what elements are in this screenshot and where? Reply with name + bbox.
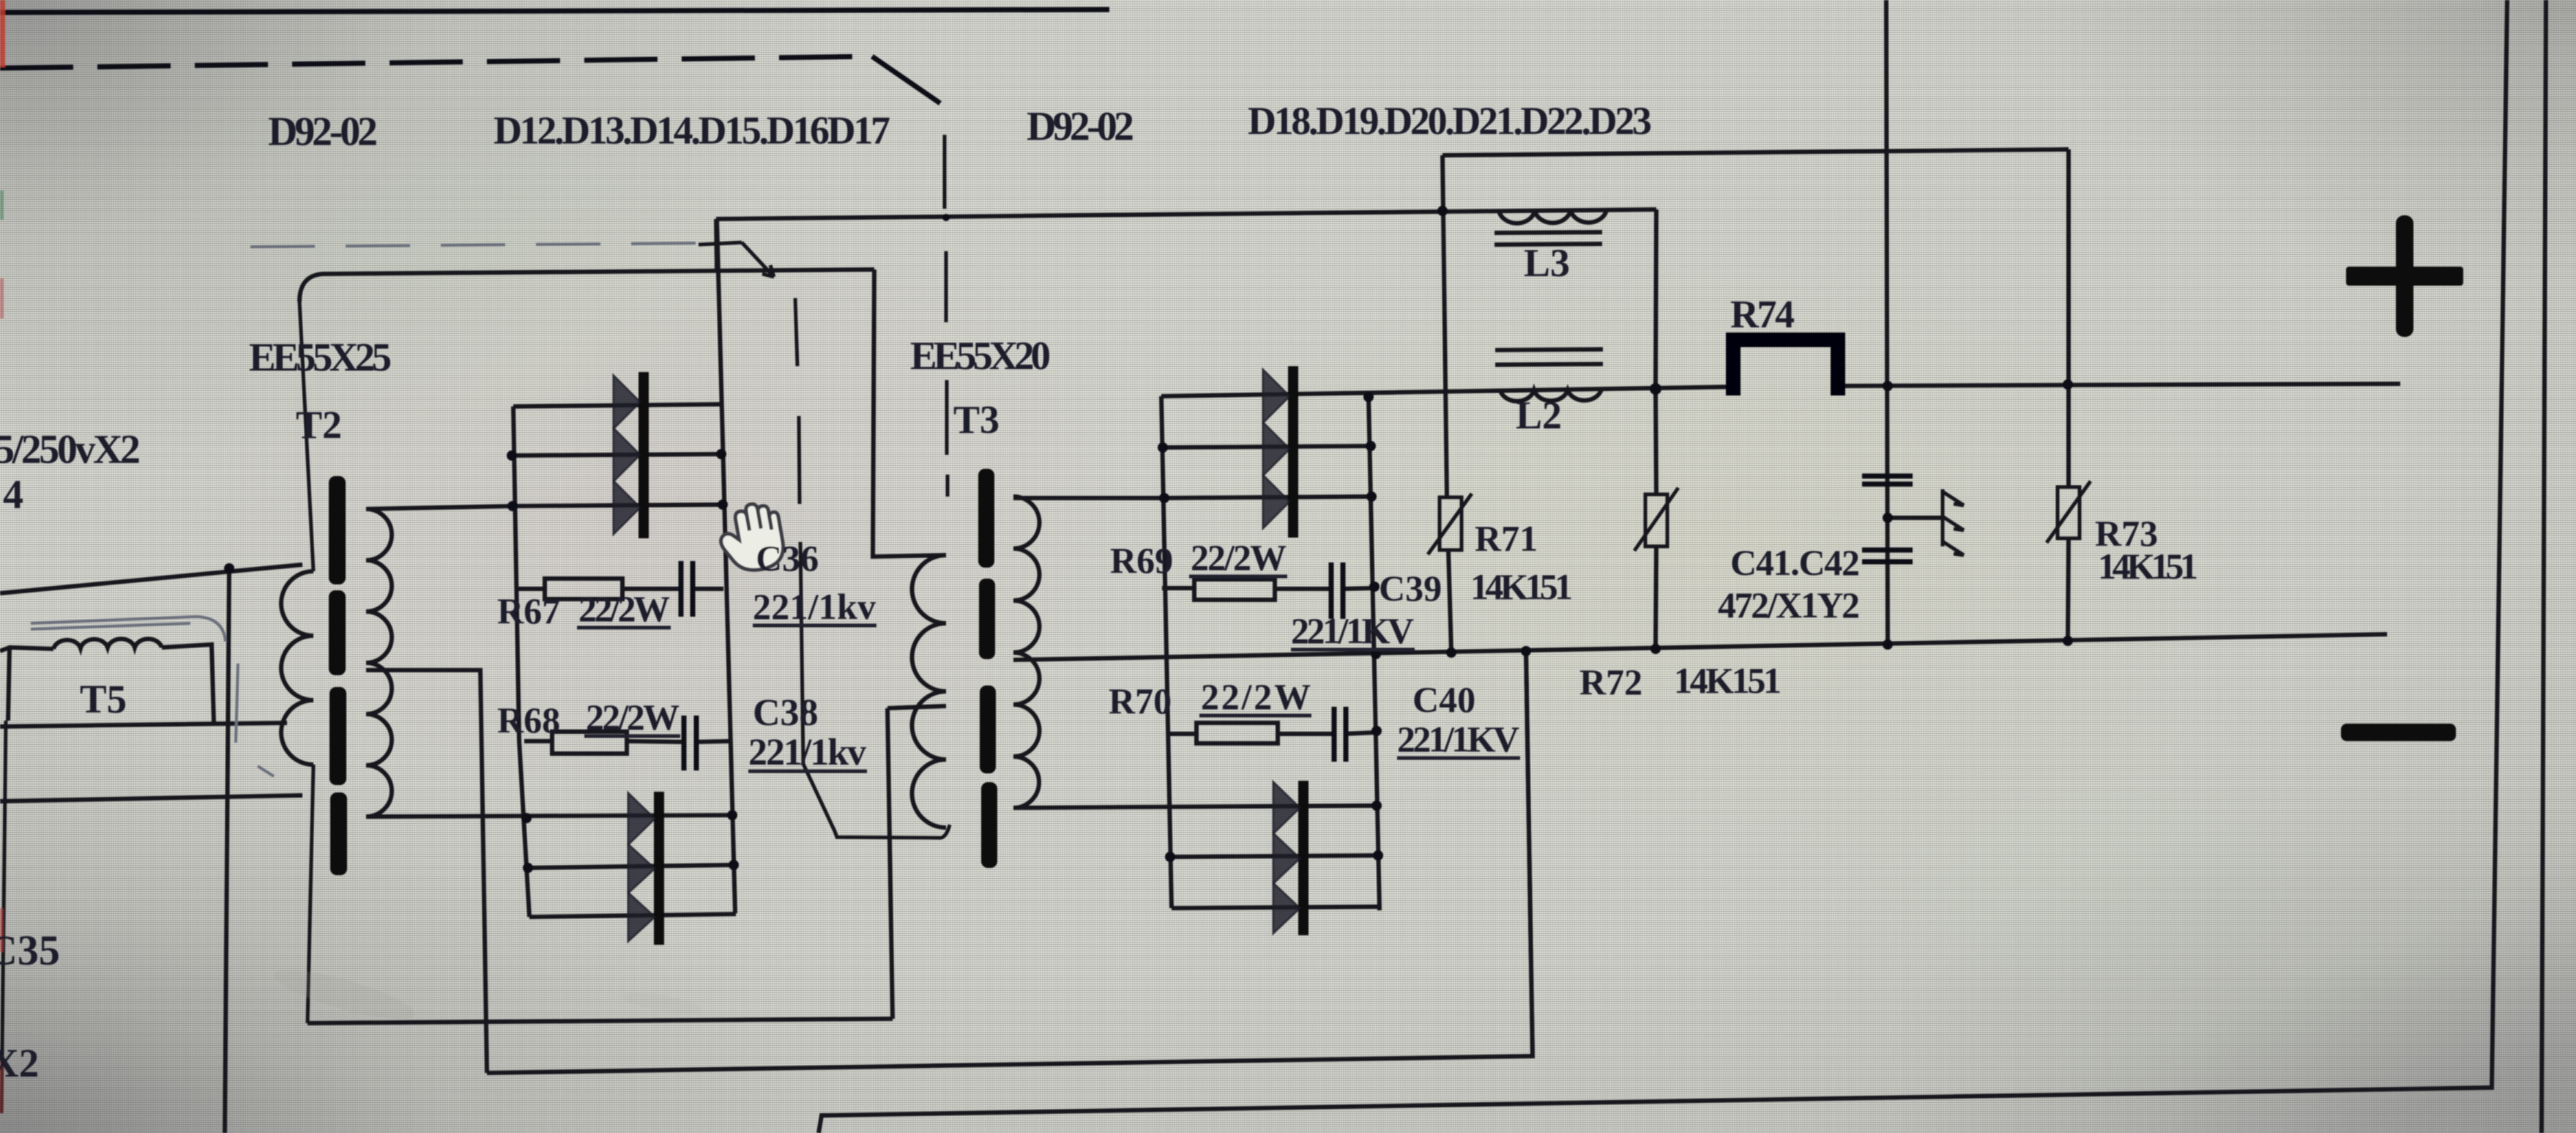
- label underline: [1189, 575, 1287, 579]
- junction (1872,609): [1366, 441, 1376, 451]
- junction (2261,531): [1650, 383, 1661, 395]
- left edge vertical: [1, 721, 6, 1113]
- T2 primary lead vertical: [299, 302, 313, 1023]
- svg-text:22/2W: 22/2W: [586, 696, 680, 738]
- T2 secondary bottom tap: [366, 815, 732, 817]
- svg-text:R74: R74: [1730, 292, 1795, 336]
- C41 capacitor: [1862, 476, 1913, 484]
- svg-text:C39: C39: [1379, 568, 1442, 609]
- L3 core bars: [1494, 232, 1602, 245]
- T2 primary winding: [281, 571, 313, 765]
- right outer border: [2542, 0, 2546, 1133]
- junction (1292,297): [942, 214, 950, 221]
- svg-text:EE55X25: EE55X25: [249, 335, 392, 379]
- svg-text:T3: T3: [953, 398, 999, 442]
- D18 D19 D20 triangles: [1263, 370, 1289, 423]
- top line y211: [1443, 149, 2069, 155]
- svg-text:4: 4: [3, 472, 23, 518]
- label underline: [1291, 648, 1415, 652]
- long vertical from W1: [225, 568, 229, 1133]
- svg-text:R67: R67: [497, 590, 560, 631]
- svg-text:R70: R70: [1109, 680, 1172, 721]
- bottom rail to T3 box: [308, 1019, 893, 1023]
- svg-text:221/1KV: 221/1KV: [1291, 610, 1414, 651]
- svg-text:D92-02: D92-02: [268, 109, 378, 155]
- T3 center tap rail (return): [1013, 634, 2387, 660]
- junction (2578,527): [1883, 381, 1893, 391]
- L2 coil: [1500, 390, 1601, 401]
- junction (1873,678): [1366, 491, 1377, 502]
- left wire W3: [0, 795, 302, 801]
- svg-text:L3: L3: [1524, 241, 1570, 285]
- L2 rail: [1161, 384, 2400, 396]
- svg-text:22/2W: 22/2W: [1201, 676, 1311, 717]
- top rail y299 with L3: [716, 209, 1656, 219]
- D15 D16 D17 triangles: [628, 793, 655, 844]
- R68 snubber wire: [524, 741, 730, 742]
- svg-text:14K151: 14K151: [2098, 546, 2198, 587]
- R73 varistor: [2058, 487, 2080, 538]
- svg-text:L2: L2: [1516, 393, 1562, 437]
- C36 capacitor: [681, 561, 693, 617]
- T3 secondary winding: [1013, 497, 1040, 808]
- chassis ground symbol: [1941, 489, 1945, 546]
- gray dashed diagonal arrow: [699, 242, 774, 277]
- minus output terminal: [2341, 724, 2456, 741]
- T3 secondary top tap: [1013, 496, 1161, 500]
- svg-text:C36: C36: [756, 538, 819, 579]
- T3 core: [978, 469, 994, 568]
- junction (1882,1168): [1373, 850, 1383, 861]
- T2 transformer core: [329, 476, 346, 584]
- label underline: [1397, 757, 1520, 760]
- lower return rail: [487, 649, 1533, 1073]
- top border line: [0, 10, 1109, 12]
- T2 upper diode block left bus: [513, 406, 529, 917]
- T3 left edge vertical: [887, 706, 946, 1019]
- C38 capacitor: [684, 716, 696, 770]
- T3 lower diode wires: [1170, 855, 1378, 857]
- junction (1598,1170): [1165, 852, 1175, 862]
- svg-text:C38: C38: [753, 692, 819, 734]
- svg-text:D92-02: D92-02: [1027, 104, 1134, 149]
- T3 lower cathode bar: [1298, 781, 1309, 935]
- svg-text:221/1kv: 221/1kv: [748, 732, 866, 773]
- svg-text:T5: T5: [80, 677, 127, 721]
- svg-text:R69: R69: [1110, 540, 1173, 581]
- R74 jumper: [1733, 340, 1838, 395]
- junction (2824,525): [2063, 379, 2073, 390]
- T5 shield gray: [31, 617, 226, 642]
- L2 core bars: [1495, 349, 1603, 365]
- left wire W2: [0, 723, 287, 727]
- vertical from 211 line: [1443, 155, 1451, 652]
- svg-text:D12.D13.D14.D15.D16D17: D12.D13.D14.D15.D16D17: [494, 108, 890, 152]
- svg-text:R68: R68: [497, 699, 560, 740]
- R71 varistor: [1440, 497, 1462, 550]
- C39 capacitor: [1331, 562, 1343, 619]
- svg-text:EE55X20: EE55X20: [910, 333, 1051, 378]
- T2 secondary winding: [366, 509, 392, 817]
- T2 secondary center tap: [366, 670, 487, 1073]
- junction (1588,611): [1158, 442, 1168, 453]
- svg-text:14K151: 14K151: [1470, 566, 1573, 607]
- junction (987,689): [718, 499, 728, 510]
- T2 box top edge: [299, 270, 874, 302]
- svg-text:221/1KV: 221/1KV: [1397, 718, 1519, 759]
- junction (1000,1113): [727, 810, 737, 820]
- D18-D20 wires: [1163, 446, 1371, 447]
- svg-text:14K151: 14K151: [1674, 660, 1782, 701]
- T3 right bus: [1369, 397, 1380, 910]
- junction (985,620): [716, 449, 726, 459]
- L3 coil: [1499, 210, 1607, 223]
- junction (1982,891): [1446, 647, 1456, 658]
- ground wire: [1888, 516, 1943, 520]
- svg-text:22/2W: 22/2W: [1191, 537, 1287, 578]
- label underline: [1199, 714, 1311, 718]
- dashed separator vertical: [945, 135, 948, 497]
- junction (2824,875): [2063, 636, 2073, 646]
- T2 secondary top tap: [366, 506, 513, 509]
- T3 stage: primary winding: [912, 555, 947, 828]
- junction (1869,542): [1363, 392, 1374, 402]
- right inner border: [819, 0, 2507, 1133]
- T2 right bus: [717, 219, 735, 913]
- svg-text:221/1kv: 221/1kv: [753, 586, 876, 627]
- T2 box right edge: [873, 270, 946, 557]
- T2 lower cathode bar: [654, 792, 664, 945]
- label underline: [753, 624, 876, 628]
- D21 D22 D23 triangles: [1273, 782, 1300, 833]
- C40 capacitor: [1334, 707, 1346, 762]
- C42 capacitor: [1862, 550, 1913, 562]
- T2 lower diode wires: [528, 865, 734, 868]
- svg-text:472/X1Y2: 472/X1Y2: [1718, 584, 1860, 625]
- T3 upper diode block left bus: [1161, 396, 1172, 908]
- red left-edge artifacts: [0, 0, 5, 67]
- junction (1002,1181): [729, 860, 739, 870]
- T3 upper cathode bar: [1288, 366, 1298, 538]
- junction (699,622): [507, 450, 517, 461]
- svg-text:D18.D19.D20.D21.D22.D23: D18.D19.D20.D21.D22.D23: [1248, 99, 1652, 143]
- thin separator line threading to T3 primary: [795, 298, 950, 838]
- svg-text:22/2W: 22/2W: [578, 588, 670, 629]
- svg-text:R72: R72: [1579, 661, 1642, 702]
- junction (2084,889): [1521, 646, 1531, 656]
- D12 D13 D14 triangles: [614, 376, 640, 428]
- junction (719,1117): [521, 813, 532, 823]
- L3 to L2 vertical: [1656, 209, 1656, 389]
- T5 inductor: [0, 647, 53, 721]
- junction (700,691): [507, 501, 518, 511]
- junction (1590,680): [1159, 493, 1169, 503]
- C41 C42 rail vertical: [1886, 0, 1888, 643]
- junction (1970,288): [1437, 206, 1448, 216]
- junction (1880,998): [1371, 726, 1382, 736]
- dashed separator horizontal top-left: [0, 56, 872, 68]
- label underline: [748, 770, 867, 773]
- svg-text:C40: C40: [1412, 679, 1475, 720]
- junction (721,1185): [523, 863, 533, 873]
- junction (1879,893): [1371, 649, 1381, 659]
- svg-text:5/250vX2: 5/250vX2: [0, 427, 141, 472]
- left wire W1: [0, 565, 302, 593]
- svg-text:X2: X2: [0, 1041, 39, 1085]
- R69 snubber: [1162, 588, 1374, 589]
- plus output terminal: [2396, 215, 2413, 337]
- junction (1880,1100): [1371, 800, 1382, 811]
- junction (2578,880): [1883, 639, 1893, 650]
- hand cursor: [715, 500, 786, 576]
- D12-D14 wires: [513, 404, 720, 406]
- junction (2578,707): [1883, 513, 1893, 523]
- svg-text:R71: R71: [1475, 518, 1538, 559]
- T3 secondary bottom tap wire: [1013, 806, 1377, 808]
- R70 snubber: [1169, 732, 1377, 734]
- R67 snubber wire: [518, 587, 723, 591]
- right vertical rail x2825: [2068, 149, 2069, 641]
- dashed separator diagonal: [872, 56, 940, 103]
- label underline: [577, 626, 671, 630]
- svg-text:C41.C42: C41.C42: [1730, 542, 1860, 583]
- label underline: [584, 735, 680, 738]
- T2 upper cathode bar: [639, 372, 649, 538]
- svg-text:C35: C35: [0, 926, 60, 974]
- R72 varistor branch: [1656, 389, 1656, 647]
- junction (313,776): [224, 563, 234, 573]
- smudges: [269, 960, 418, 1029]
- svg-text:T2: T2: [296, 403, 342, 447]
- C40 right branch vertical: [1526, 649, 1533, 1056]
- gray dashed line: [250, 243, 696, 247]
- junction (2261,886): [1650, 644, 1661, 654]
- junction (1877,801): [1369, 582, 1380, 592]
